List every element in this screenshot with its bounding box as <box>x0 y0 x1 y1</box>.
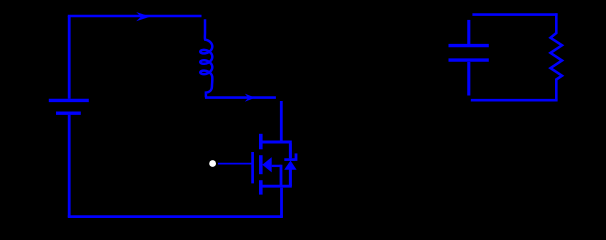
gate wire <box>218 163 252 165</box>
gate terminal dot <box>209 160 216 167</box>
wire top right loop <box>472 13 557 16</box>
wire bottom return <box>68 215 283 218</box>
battery V1 <box>49 16 89 217</box>
current arrow 1 <box>136 12 150 21</box>
wire drain stub <box>280 101 283 142</box>
resistor R1 <box>551 13 563 100</box>
wire inductor to switch node <box>205 96 276 99</box>
wire top (battery to inductor) <box>68 15 202 18</box>
capacitor C1 <box>449 20 489 96</box>
inductor L1 <box>200 19 212 97</box>
wire source stub <box>280 188 283 217</box>
current arrow 2 <box>245 94 255 102</box>
transistor Q1 (MOSFET) <box>253 134 292 195</box>
wire bottom right loop <box>471 99 558 102</box>
body diode D1 <box>284 143 296 186</box>
